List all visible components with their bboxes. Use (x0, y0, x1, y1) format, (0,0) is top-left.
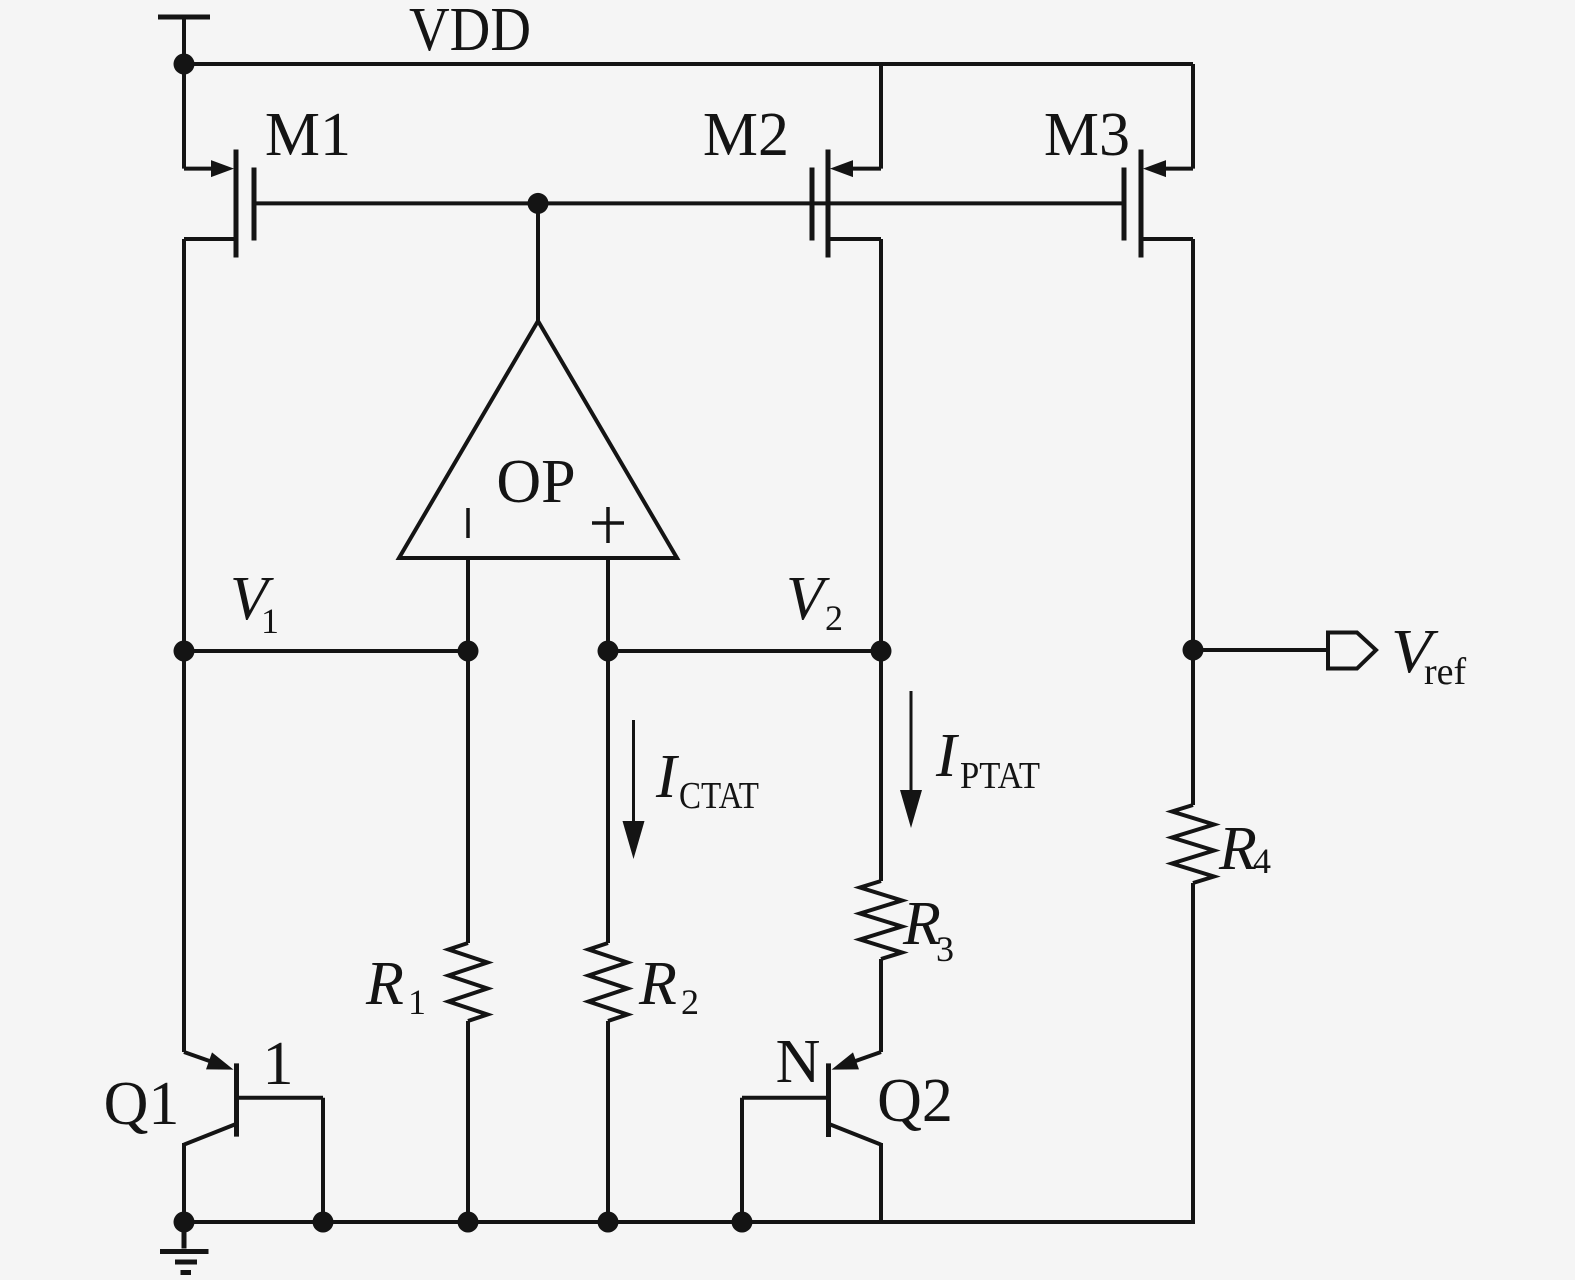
svg-text:M3: M3 (1044, 101, 1130, 169)
transistor Q1 (184, 1052, 323, 1222)
wire V2 column to R3 (879, 651, 883, 881)
svg-text:OP: OP (496, 448, 575, 516)
resistor R4 (1172, 805, 1214, 883)
transistor Q2 (742, 1052, 881, 1222)
wire op-amp inverting input lead (466, 558, 470, 651)
node V2 at R2 / non-inverting input (598, 641, 619, 662)
transistor M2 (812, 64, 881, 258)
current arrow I_CTAT (623, 720, 645, 859)
svg-text:Q2: Q2 (877, 1067, 953, 1135)
wire V2 node to R2 (606, 651, 610, 943)
wire V1 horizontal (184, 649, 468, 653)
svg-text:1: 1 (263, 1030, 294, 1098)
node ground at Q2 base (732, 1212, 753, 1233)
wire R1 to ground rail (466, 1021, 470, 1222)
node V1 on M1 drain column (174, 641, 195, 662)
node ground at R1 (458, 1212, 479, 1233)
wire op-amp non-inverting input lead (606, 558, 610, 651)
port symbol Vref (1328, 633, 1376, 669)
node ground at Q1 base (313, 1212, 334, 1233)
svg-text:N: N (776, 1028, 821, 1096)
resistor R1 (449, 943, 488, 1021)
transistor M3 (1124, 64, 1193, 258)
node Vref junction (1183, 640, 1204, 661)
wire ground rail (184, 1220, 1193, 1224)
current arrow I_PTAT (900, 691, 922, 828)
wire op-amp output (536, 203, 540, 321)
node V2 on M2 drain column (871, 641, 892, 662)
transistor M1 (184, 64, 254, 258)
VDD power symbol (158, 17, 210, 64)
node VDD junction (174, 54, 195, 75)
svg-text:VDD: VDD (409, 0, 531, 64)
ground symbol (160, 1222, 209, 1273)
wire V2 horizontal (608, 649, 881, 653)
resistor R2 (589, 943, 628, 1021)
wire Vref output lead (1193, 648, 1328, 652)
wire R2 to ground rail (606, 1021, 610, 1222)
wire R3 to Q2 emitter (879, 959, 883, 1052)
wire VDD rail (184, 62, 1193, 66)
wire V1 node to Q1 emitter (182, 651, 186, 1052)
wire M1 drain to V1 node (182, 239, 186, 651)
node gate/op-amp output junction (528, 193, 549, 214)
wire gate bus (254, 201, 1123, 205)
svg-text:M2: M2 (703, 101, 789, 169)
resistor R3 (860, 881, 902, 959)
svg-text:Q1: Q1 (104, 1070, 180, 1138)
svg-text:M1: M1 (265, 101, 351, 169)
op-amp U1 (OP) (399, 321, 677, 558)
node ground at R2 (598, 1212, 619, 1233)
svg-text:ref: ref (1424, 651, 1467, 693)
node ground at Q1 collector (174, 1212, 195, 1233)
wire Vref node to R4 (1191, 650, 1195, 805)
wire R4 to ground rail corner (1191, 883, 1193, 1222)
wire V1 node to R1 (466, 651, 470, 943)
wire M2 drain to V2 node (879, 239, 883, 651)
node V1 at R1 / inverting input (458, 641, 479, 662)
wire M3 drain to Vref node (1191, 239, 1195, 650)
